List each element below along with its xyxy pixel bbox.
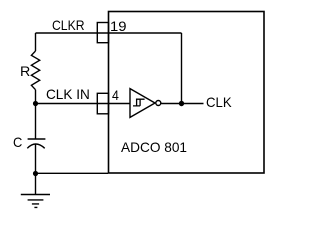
wire bottom (junction to IC box bottom edge) — [36, 172, 109, 174]
label CLKR — [52, 18, 85, 32]
wire internal vertical from pin19 route down to inverter output node — [181, 33, 183, 104]
label R — [20, 64, 30, 78]
IC box U1 ADC0801 — [109, 12, 265, 174]
label CLK — [206, 95, 232, 109]
label C — [13, 135, 22, 149]
label CLK IN — [46, 87, 90, 101]
wire inverter output to CLK stub — [161, 103, 204, 105]
ground symbol — [21, 174, 50, 208]
node CLK IN junction dot — [33, 101, 38, 106]
wire left rail bottom (capacitor to ground junction) — [35, 144, 37, 174]
node ground junction dot — [33, 171, 38, 176]
part value ADCO 801 — [121, 140, 187, 154]
schmitt hysteresis glyph — [133, 99, 145, 106]
capacitor C curved bottom plate — [27, 144, 44, 148]
wire CLK IN horizontal — [36, 103, 131, 105]
capacitor C top plate — [28, 138, 46, 140]
pin 19 terminal rectangle — [97, 23, 108, 43]
pin number 19 — [110, 19, 127, 33]
resistor R1 zigzag — [31, 51, 39, 90]
wire left rail top (CLKR corner down to resistor) — [35, 33, 37, 51]
node inverter output junction dot — [179, 101, 184, 106]
wire CLKR net: left rail corner to internal corner — [36, 32, 182, 34]
pin number 4 — [112, 88, 119, 102]
pin 4 terminal rectangle — [97, 93, 108, 114]
op-amp style schmitt inverter U2 triangle — [130, 89, 155, 118]
wire left rail middle (resistor to capacitor) — [35, 90, 37, 139]
inverter output bubble — [156, 101, 161, 106]
